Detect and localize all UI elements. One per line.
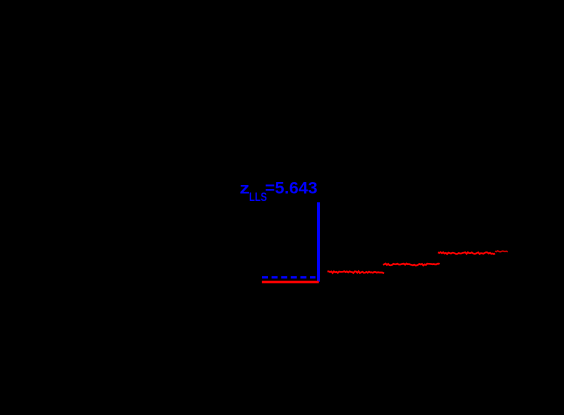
svg-text:=5.643: =5.643 (265, 178, 317, 197)
